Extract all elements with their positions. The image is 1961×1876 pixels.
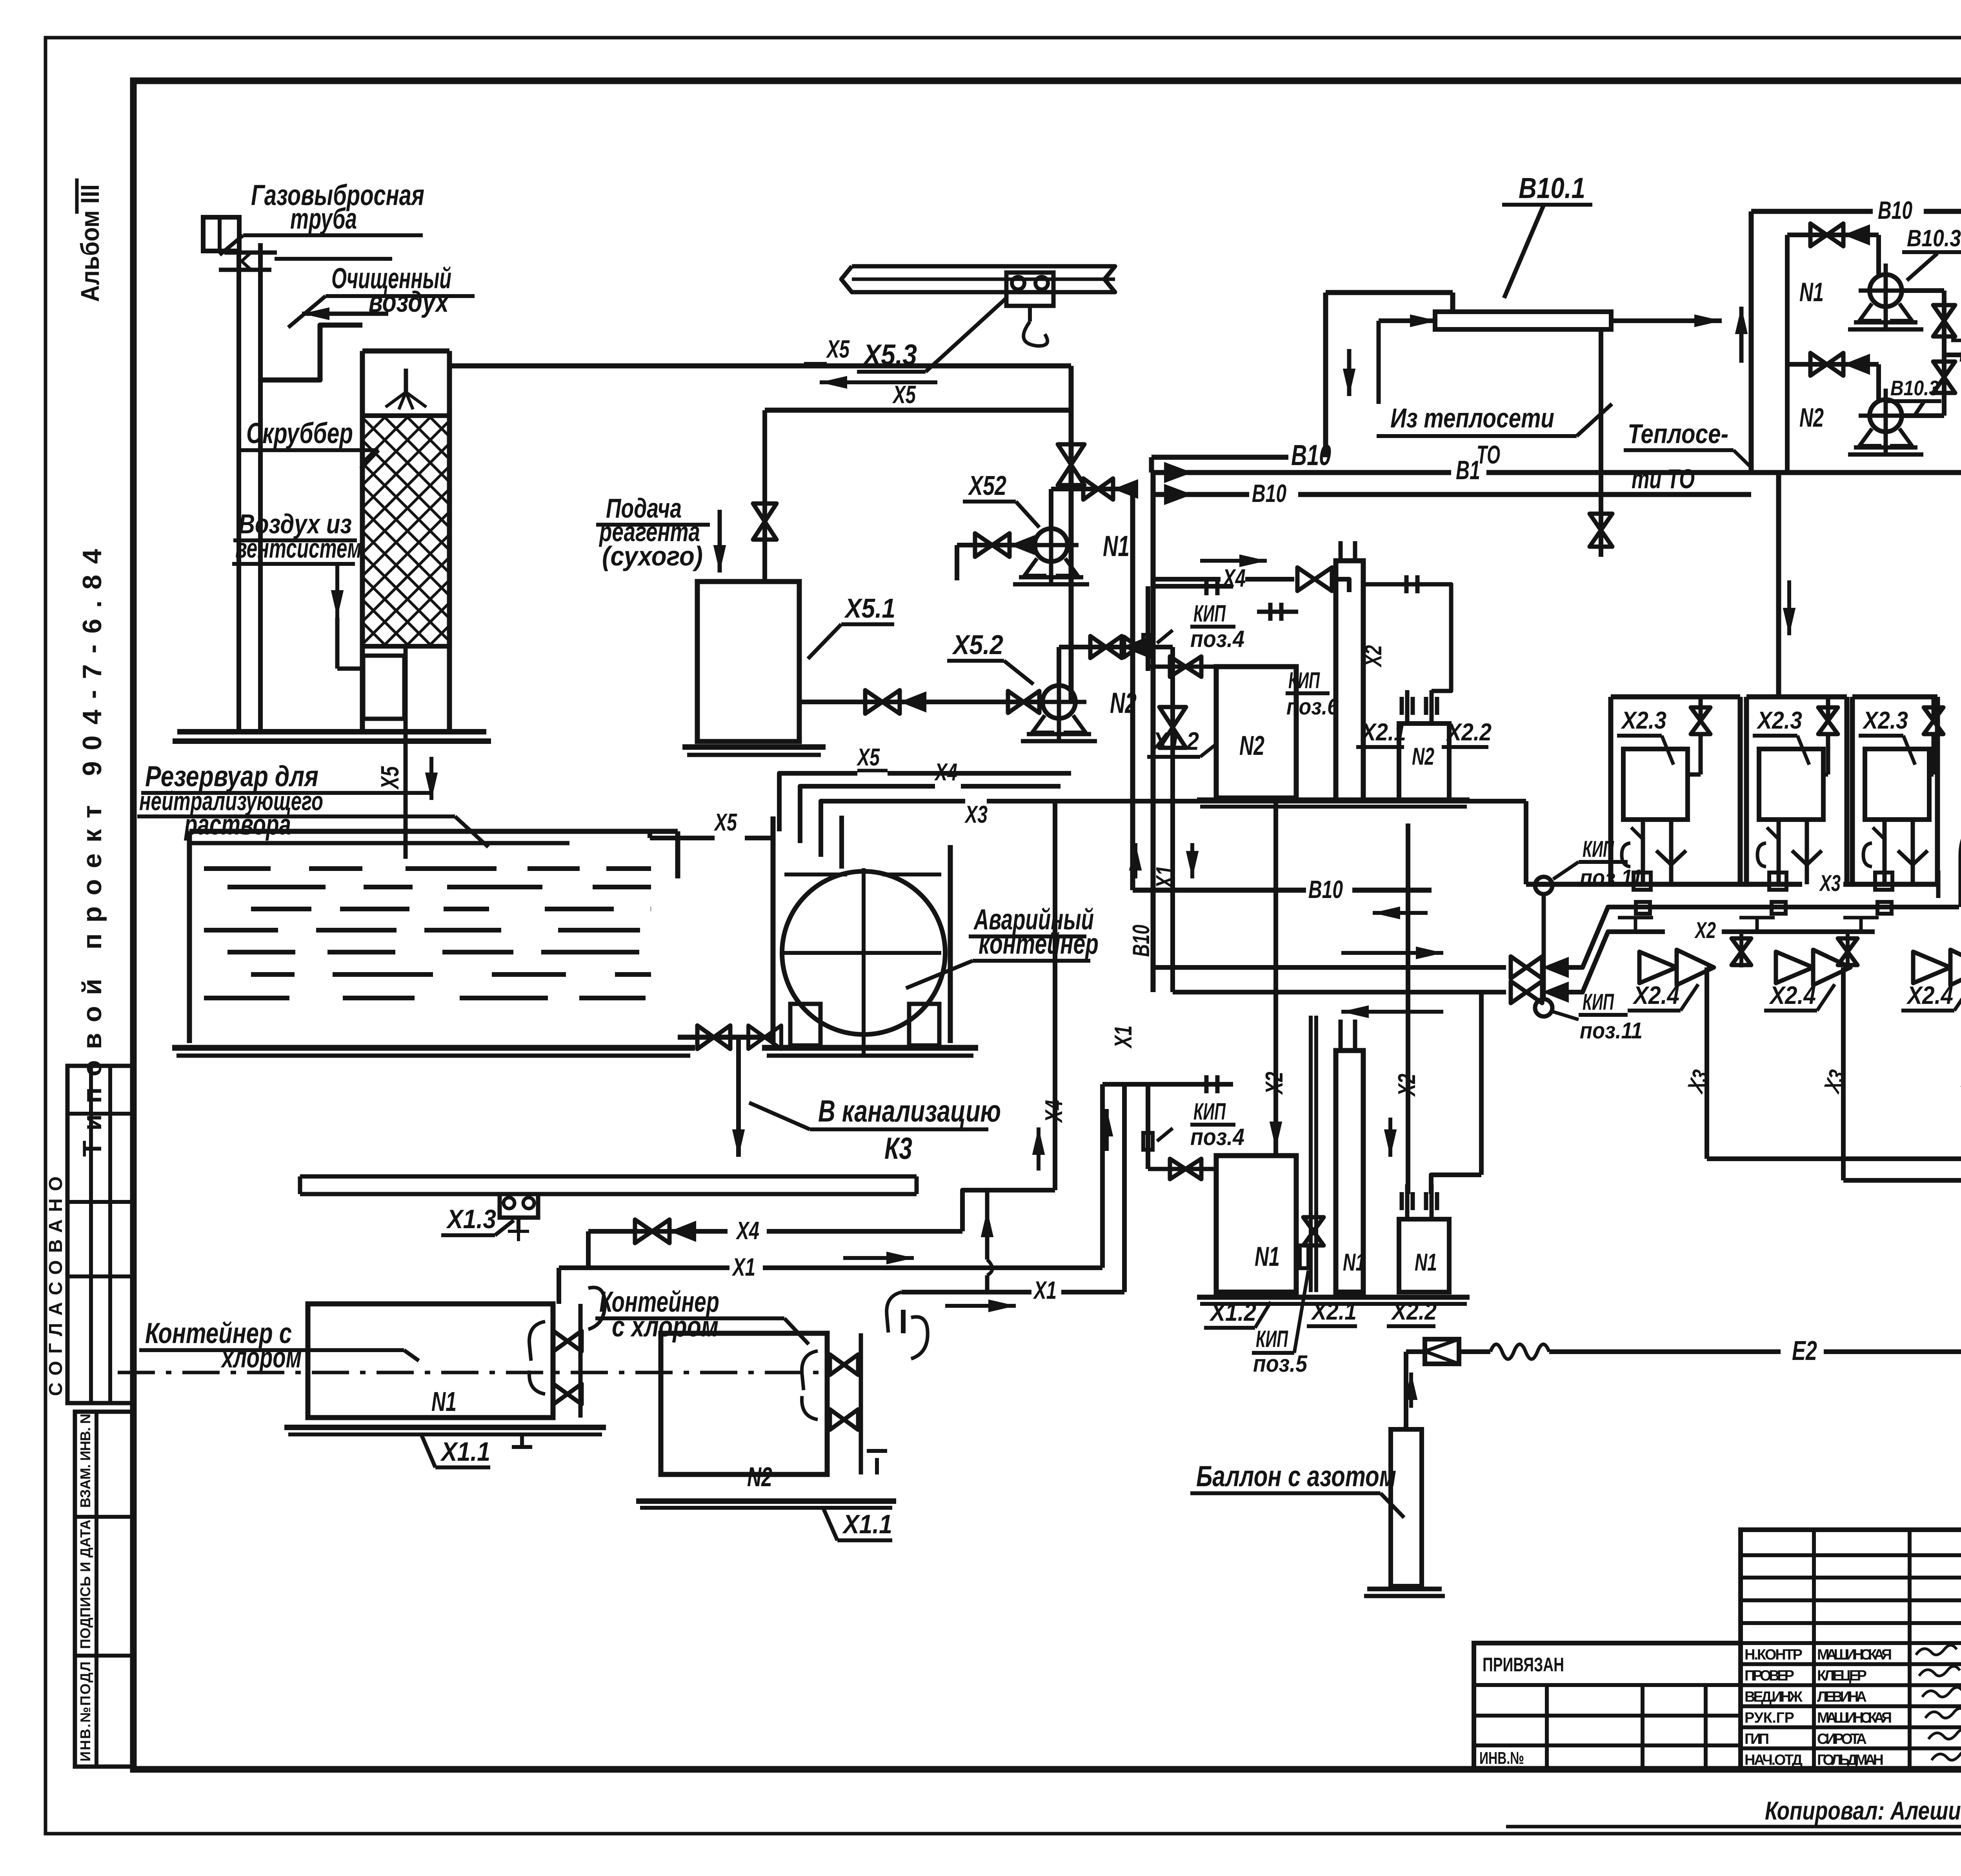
svg-text:Х4: Х4: [736, 1216, 759, 1245]
svg-text:СОГЛАСОВАНО: СОГЛАСОВАНО: [45, 1176, 66, 1396]
svg-text:Х5: Х5: [376, 766, 404, 790]
svg-text:ВЗАМ. ИНВ. N: ВЗАМ. ИНВ. N: [77, 1414, 93, 1508]
svg-text:МАШИНСКАЯ: МАШИНСКАЯ: [1817, 1647, 1892, 1663]
svg-text:Х1.1: Х1.1: [842, 1509, 892, 1539]
svg-text:Х2: Х2: [1694, 918, 1716, 943]
svg-text:N2: N2: [1799, 403, 1824, 433]
svg-text:поз.11: поз.11: [1580, 865, 1643, 891]
svg-text:поз.5: поз.5: [1253, 1351, 1308, 1377]
svg-text:КИП: КИП: [1193, 1098, 1226, 1125]
svg-text:труба: труба: [290, 202, 357, 235]
svg-text:поз.4: поз.4: [1190, 626, 1244, 652]
svg-text:МАШИНСКАЯ: МАШИНСКАЯ: [1817, 1710, 1892, 1726]
svg-text:N2: N2: [1110, 687, 1137, 719]
svg-text:ти ТО: ти ТО: [1632, 464, 1695, 494]
svg-text:КЛЕЦЕР: КЛЕЦЕР: [1817, 1668, 1867, 1684]
svg-text:ВЕД.ИНЖ: ВЕД.ИНЖ: [1745, 1689, 1803, 1705]
svg-text:Х2.1: Х2.1: [1360, 719, 1406, 746]
svg-text:Х2.4: Х2.4: [1906, 981, 1953, 1009]
svg-text:В10: В10: [1308, 875, 1343, 903]
svg-text:N2: N2: [747, 1462, 772, 1492]
svg-text:Х2.2: Х2.2: [1446, 719, 1492, 746]
svg-text:ИНВ.№ПОДЛ: ИНВ.№ПОДЛ: [77, 1661, 93, 1761]
svg-text:Н.КОНТР: Н.КОНТР: [1745, 1647, 1803, 1663]
svg-text:N2: N2: [1239, 730, 1264, 761]
svg-text:Х5: Х5: [826, 335, 850, 363]
svg-text:поз.6: поз.6: [1286, 694, 1339, 720]
svg-text:Х5: Х5: [857, 744, 880, 771]
svg-text:поз.11: поз.11: [1580, 1018, 1643, 1043]
svg-text:Х3: Х3: [964, 801, 988, 828]
svg-text:Х1: Х1: [1033, 1276, 1057, 1304]
svg-text:Х2: Х2: [1393, 1074, 1421, 1097]
svg-text:с хлором: с хлором: [612, 1310, 719, 1343]
svg-text:В канализацию: В канализацию: [818, 1094, 1001, 1128]
svg-text:Х1: Х1: [1151, 865, 1179, 889]
svg-text:Х2: Х2: [1261, 1072, 1288, 1095]
svg-text:Теплосе-: Теплосе-: [1628, 418, 1728, 449]
svg-text:В10: В10: [1128, 925, 1154, 957]
svg-text:Х5.2: Х5.2: [951, 629, 1003, 660]
svg-text:Е2: Е2: [1792, 1335, 1817, 1366]
svg-text:НАЧ.ОТД: НАЧ.ОТД: [1745, 1752, 1803, 1769]
svg-text:В10.3: В10.3: [1890, 376, 1939, 400]
svg-text:ПРОВЕР: ПРОВЕР: [1745, 1668, 1794, 1684]
svg-text:Альбом III: Альбом III: [75, 184, 104, 302]
svg-text:Х2.4: Х2.4: [1769, 981, 1816, 1009]
svg-text:ПОДПИСЬ И ДАТА: ПОДПИСЬ И ДАТА: [77, 1520, 93, 1649]
svg-text:Х3: Х3: [1819, 871, 1841, 896]
svg-text:В10: В10: [1878, 196, 1912, 224]
svg-text:N1: N1: [1103, 530, 1130, 562]
svg-text:(сухого): (сухого): [602, 541, 703, 571]
svg-text:ГИП: ГИП: [1745, 1731, 1769, 1747]
svg-text:РУК.ГР: РУК.ГР: [1745, 1710, 1794, 1726]
svg-text:N1: N1: [1799, 277, 1824, 307]
svg-text:ИНВ.№: ИНВ.№: [1479, 1749, 1524, 1768]
svg-text:Скруббер: Скруббер: [246, 417, 353, 449]
svg-text:Х2.3: Х2.3: [1621, 707, 1666, 734]
svg-text:ГОЛЬДМАН: ГОЛЬДМАН: [1817, 1752, 1884, 1769]
svg-text:Баллон с азотом: Баллон с азотом: [1196, 1460, 1396, 1492]
svg-text:Х2.3: Х2.3: [1862, 707, 1908, 734]
svg-text:В10.3: В10.3: [1907, 225, 1961, 251]
svg-text:Х5.1: Х5.1: [844, 593, 895, 624]
svg-text:Х5.3: Х5.3: [862, 338, 917, 371]
svg-text:Х1.2: Х1.2: [1152, 727, 1199, 755]
svg-text:ПРИВЯЗАН: ПРИВЯЗАН: [1483, 1654, 1564, 1676]
svg-text:Х1: Х1: [732, 1253, 755, 1281]
svg-text:К3: К3: [884, 1131, 912, 1165]
svg-text:N1: N1: [431, 1386, 457, 1417]
svg-text:В10.1: В10.1: [1519, 172, 1585, 204]
svg-text:контейнер: контейнер: [979, 927, 1099, 960]
svg-text:КИП: КИП: [1256, 1326, 1288, 1352]
svg-text:Х5: Х5: [714, 809, 737, 836]
svg-text:N1: N1: [1343, 1249, 1365, 1276]
svg-text:КИП: КИП: [1583, 836, 1614, 862]
svg-text:Х52: Х52: [968, 470, 1006, 501]
svg-text:вентсистем: вентсистем: [235, 533, 362, 564]
svg-text:СИРОТА: СИРОТА: [1817, 1731, 1867, 1747]
svg-text:раствора: раствора: [184, 808, 291, 841]
svg-text:Из теплосети: Из теплосети: [1390, 403, 1554, 433]
svg-text:N2: N2: [1412, 743, 1434, 770]
svg-text:В10: В10: [1252, 479, 1286, 507]
svg-text:поз.4: поз.4: [1190, 1124, 1244, 1150]
svg-text:Х1: Х1: [1110, 1025, 1137, 1049]
svg-text:ЛЕВИНА: ЛЕВИНА: [1817, 1689, 1867, 1705]
svg-text:КИП: КИП: [1193, 600, 1226, 627]
svg-text:ВО: ВО: [1959, 341, 1961, 367]
svg-text:N1: N1: [1255, 1241, 1280, 1272]
svg-text:хлором: хлором: [220, 1341, 302, 1374]
svg-text:Х1.3: Х1.3: [446, 1204, 496, 1234]
svg-text:Х2.4: Х2.4: [1632, 981, 1679, 1009]
svg-text:Х5: Х5: [892, 380, 916, 409]
svg-text:Х1.1: Х1.1: [440, 1437, 490, 1467]
svg-text:ТО: ТО: [1477, 440, 1500, 469]
svg-text:Х4: Х4: [1041, 1100, 1068, 1123]
svg-text:Х2.3: Х2.3: [1756, 707, 1802, 734]
svg-text:Х2.1: Х2.1: [1311, 1298, 1357, 1325]
svg-text:Копировал: Алешикова: Копировал: Алешикова: [1765, 1796, 1961, 1825]
svg-text:КИП: КИП: [1288, 668, 1320, 693]
svg-text:Х2.2: Х2.2: [1391, 1298, 1437, 1325]
svg-text:N1: N1: [1415, 1249, 1437, 1276]
svg-text:Х2: Х2: [1360, 645, 1386, 667]
svg-text:КИП: КИП: [1583, 989, 1614, 1015]
